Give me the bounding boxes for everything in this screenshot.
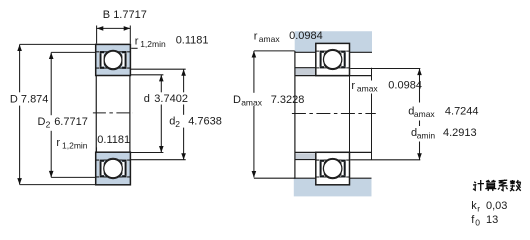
housing shoulder edge lines — [295, 51, 316, 53]
mounted bearing lower half (right figure) — [316, 152, 350, 185]
svg-text:0,03: 0,03 — [486, 200, 507, 212]
svg-text:0: 0 — [475, 217, 480, 227]
svg-text:amax: amax — [241, 98, 263, 108]
heading 计算系数 (calculation factors) drawn as strokes — [473, 180, 521, 191]
dimension da: extension lines — [350, 68, 420, 70]
svg-text:3.7402: 3.7402 — [154, 93, 188, 105]
centerline (left figure axis) — [93, 112, 133, 114]
shaft shoulder block upper (gray-blue) — [295, 68, 316, 75]
svg-text:1,2min: 1,2min — [140, 39, 166, 49]
svg-text:D: D — [233, 94, 241, 106]
svg-text:6.7717: 6.7717 — [54, 116, 88, 128]
shaft end break line — [371, 68, 373, 81]
dimension Da max: vertical dimension line — [253, 51, 255, 93]
dimension d: vertical dimension line — [160, 75, 162, 92]
dimension Da max: extension lines — [254, 50, 295, 52]
svg-text:13: 13 — [486, 214, 498, 226]
svg-text:2: 2 — [175, 119, 180, 129]
dimension B: dimension line with arrows — [97, 27, 131, 29]
shaft surface lines — [295, 75, 372, 77]
r1,2min leader (bottom-left corner) — [96, 147, 98, 151]
bearing side extension line (right figure) — [349, 76, 351, 153]
r1,2min leader (top-right corner) — [131, 47, 137, 49]
bearing cross-section lower half (left figure) — [96, 152, 131, 185]
svg-text:amax: amax — [414, 109, 436, 119]
svg-text:amin: amin — [417, 131, 436, 141]
dimension d2: vertical dimension line — [183, 69, 185, 92]
svg-text:r: r — [56, 137, 60, 149]
mounted bearing upper half (right figure) — [316, 43, 350, 75]
svg-text:0.1181: 0.1181 — [97, 134, 130, 146]
svg-text:0.0984: 0.0984 — [388, 79, 422, 91]
dimension D: vertical dimension line — [19, 45, 21, 93]
bore edge line left (between halves) — [95, 76, 97, 153]
dimension d: extension lines — [130, 74, 163, 76]
svg-text:0.0984: 0.0984 — [289, 30, 323, 42]
svg-text:D 7.874: D 7.874 — [10, 93, 49, 105]
svg-text:r: r — [135, 36, 139, 48]
svg-text:4.7638: 4.7638 — [188, 116, 222, 128]
svg-text:7.3228: 7.3228 — [271, 94, 305, 106]
svg-text:1,2min: 1,2min — [62, 140, 88, 150]
dimension D: extension lines top/bottom — [20, 43, 96, 45]
svg-text:0.1181: 0.1181 — [176, 35, 209, 47]
svg-text:amax: amax — [259, 34, 281, 44]
svg-text:4.2913: 4.2913 — [443, 127, 477, 139]
svg-text:4.7244: 4.7244 — [445, 106, 479, 118]
housing block upper (light blue) — [295, 31, 372, 52]
figure left boundary line (housing/shaft face) — [294, 51, 296, 178]
housing block lower (light blue) — [294, 178, 372, 196]
dimension D2: vertical dimension line — [50, 53, 52, 116]
svg-text:r: r — [254, 31, 258, 43]
svg-text:r: r — [477, 204, 480, 214]
svg-text:D: D — [38, 116, 46, 128]
centerline (right figure axis) — [292, 113, 376, 115]
dimension B: extension lines — [96, 26, 98, 44]
shaft shoulder block lower (gray-blue) — [295, 153, 316, 159]
svg-text:r: r — [351, 80, 355, 92]
svg-text:B 1.7717: B 1.7717 — [103, 9, 147, 21]
dimension d2: extension lines — [130, 68, 185, 70]
svg-text:amax: amax — [357, 84, 379, 94]
svg-text:2: 2 — [46, 120, 51, 130]
bearing cross-section upper half (left figure) — [96, 44, 131, 75]
dimension da: vertical dimension line segments — [419, 69, 421, 103]
bore edge line right (between halves) — [129, 76, 131, 153]
svg-text:d: d — [144, 93, 150, 105]
dimension D2: extension lines — [51, 51, 95, 53]
